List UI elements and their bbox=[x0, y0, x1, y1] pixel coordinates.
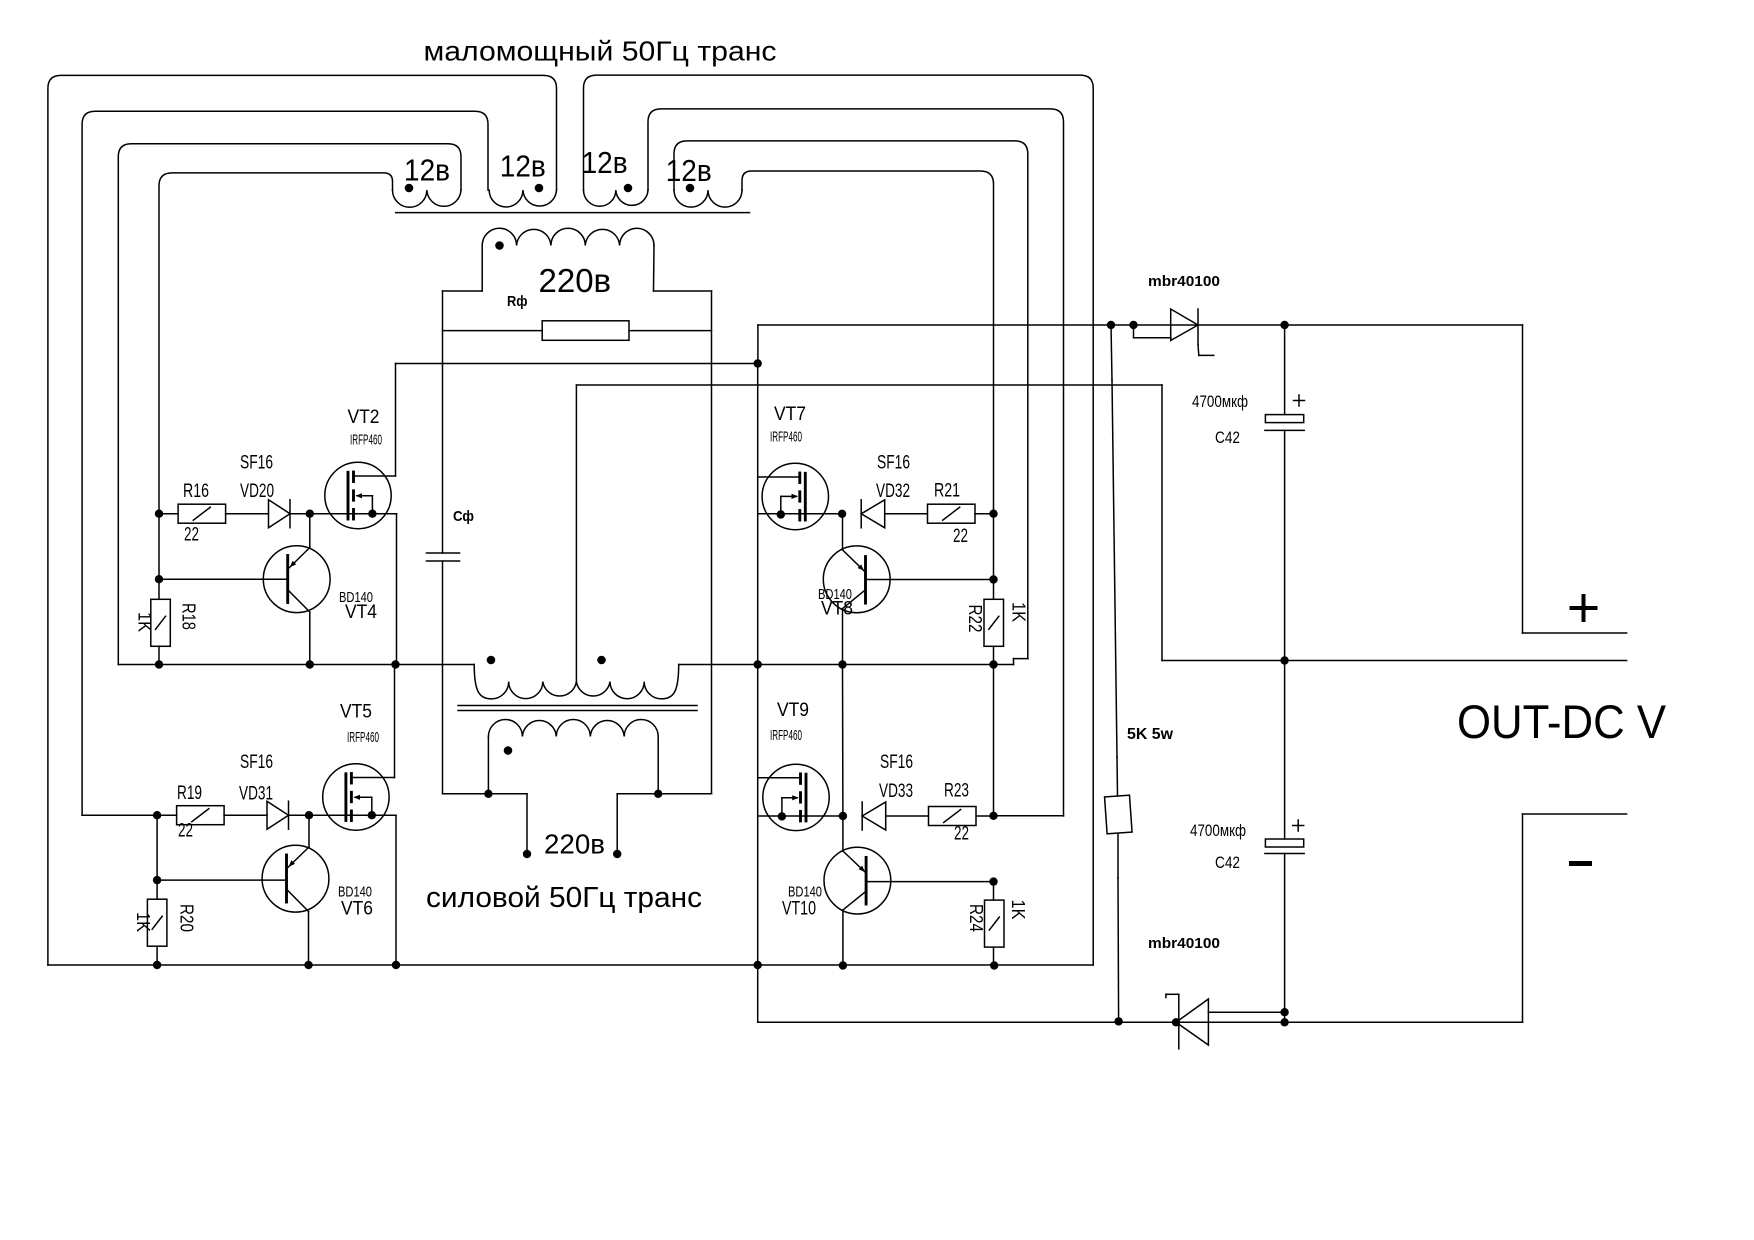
svg-text:VD20: VD20 bbox=[240, 481, 274, 502]
svg-text:SF16: SF16 bbox=[880, 752, 913, 773]
svg-text:12в: 12в bbox=[582, 145, 628, 180]
svg-text:1K: 1K bbox=[133, 912, 153, 932]
svg-text:22: 22 bbox=[184, 525, 199, 546]
svg-text:VD33: VD33 bbox=[879, 781, 913, 802]
svg-text:22: 22 bbox=[953, 526, 968, 547]
svg-text:VT2: VT2 bbox=[348, 407, 380, 428]
svg-text:1K: 1K bbox=[135, 612, 155, 632]
svg-text:R20: R20 bbox=[177, 904, 197, 932]
svg-text:R16: R16 bbox=[183, 481, 209, 502]
svg-text:4700мкф: 4700мкф bbox=[1192, 393, 1248, 411]
svg-text:SF16: SF16 bbox=[240, 752, 273, 773]
svg-text:С42: С42 bbox=[1215, 429, 1240, 447]
svg-text:IRFP460: IRFP460 bbox=[347, 729, 379, 746]
svg-text:mbr40100: mbr40100 bbox=[1148, 273, 1220, 290]
svg-text:маломощный 50Гц транс: маломощный 50Гц транс bbox=[424, 34, 777, 66]
svg-text:Сф: Сф bbox=[453, 508, 474, 525]
svg-text:VD31: VD31 bbox=[239, 784, 273, 805]
svg-text:R23: R23 bbox=[944, 781, 969, 802]
svg-text:mbr40100: mbr40100 bbox=[1148, 935, 1220, 952]
svg-text:R22: R22 bbox=[965, 605, 985, 633]
svg-text:SF16: SF16 bbox=[877, 453, 910, 474]
svg-text:R21: R21 bbox=[934, 481, 960, 502]
svg-text:IRFP460: IRFP460 bbox=[770, 429, 802, 446]
svg-text:VT9: VT9 bbox=[777, 700, 809, 721]
svg-text:VT4: VT4 bbox=[345, 602, 377, 623]
svg-text:22: 22 bbox=[954, 824, 969, 845]
svg-text:VT10: VT10 bbox=[782, 899, 816, 920]
svg-text:VT7: VT7 bbox=[774, 404, 806, 425]
svg-text:22: 22 bbox=[178, 821, 193, 842]
svg-text:VT6: VT6 bbox=[341, 899, 373, 920]
svg-text:VD32: VD32 bbox=[876, 481, 910, 502]
svg-text:OUT-DC V: OUT-DC V bbox=[1457, 695, 1667, 748]
svg-text:силовой 50Гц транс: силовой 50Гц транс bbox=[426, 882, 702, 914]
svg-text:VT8: VT8 bbox=[821, 599, 853, 620]
svg-text:220в: 220в bbox=[539, 262, 612, 299]
svg-text:VT5: VT5 bbox=[340, 702, 372, 723]
svg-text:Rф: Rф bbox=[507, 293, 528, 310]
svg-text:R24: R24 bbox=[966, 904, 986, 932]
svg-text:С42: С42 bbox=[1215, 854, 1240, 872]
svg-text:R19: R19 bbox=[177, 783, 202, 804]
svg-text:220в: 220в bbox=[544, 829, 605, 860]
svg-text:12в: 12в bbox=[500, 149, 546, 184]
svg-text:IRFP460: IRFP460 bbox=[350, 432, 382, 449]
svg-text:4700мкф: 4700мкф bbox=[1190, 822, 1246, 840]
svg-text:1K: 1K bbox=[1008, 900, 1028, 920]
svg-text:1K: 1K bbox=[1009, 602, 1029, 622]
svg-text:5K 5w: 5K 5w bbox=[1127, 726, 1174, 743]
svg-text:SF16: SF16 bbox=[240, 453, 273, 474]
svg-text:R18: R18 bbox=[179, 603, 199, 630]
svg-text:IRFP460: IRFP460 bbox=[770, 727, 802, 744]
svg-text:12в: 12в bbox=[666, 153, 712, 188]
svg-text:12в: 12в bbox=[404, 153, 450, 188]
